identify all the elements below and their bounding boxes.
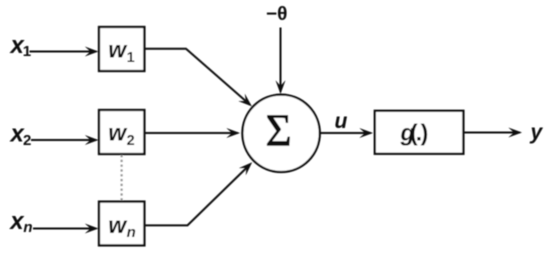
activation box g(.) (375, 111, 464, 154)
arrowhead w1 wire (238, 94, 255, 111)
svg-text:n: n (127, 224, 136, 241)
wire g to output (464, 132, 521, 134)
svg-text:Σ: Σ (266, 106, 292, 156)
wire xn to wn (33, 228, 96, 230)
svg-text:w: w (108, 119, 128, 145)
weight box w1 (99, 27, 144, 71)
arrowhead into w1 (85, 47, 99, 57)
svg-text:w: w (108, 36, 128, 62)
weight box w2 (99, 110, 144, 154)
arrowhead into g box (359, 128, 373, 138)
svg-text:): ) (421, 120, 429, 146)
wire x1 to w1 (30, 51, 97, 53)
svg-text:1: 1 (127, 50, 135, 66)
summation node circle (242, 95, 319, 172)
svg-text:w: w (108, 212, 128, 238)
dotted continuation line (120, 155, 122, 201)
arrowhead bias wire (276, 80, 286, 94)
svg-text:n: n (23, 219, 32, 236)
svg-text:2: 2 (127, 133, 135, 149)
arrowhead w2 wire (226, 128, 240, 138)
weight box wn (99, 202, 144, 246)
arrowhead into wn (85, 224, 99, 234)
wire w1 to summation (145, 49, 251, 105)
wire w2 to summation (145, 132, 239, 134)
wire wn to summation (145, 165, 250, 226)
wire x2 to w2 (31, 139, 96, 141)
arrowhead wn wire (239, 159, 256, 176)
svg-text:2: 2 (23, 132, 31, 149)
svg-text:y: y (530, 121, 544, 144)
arrowhead output (508, 128, 522, 138)
arrowhead into w2 (85, 135, 99, 145)
svg-text:u: u (335, 110, 348, 133)
bias wire down to summation (280, 28, 282, 93)
svg-text:−θ: −θ (266, 4, 287, 25)
wire summation to g (320, 132, 371, 134)
